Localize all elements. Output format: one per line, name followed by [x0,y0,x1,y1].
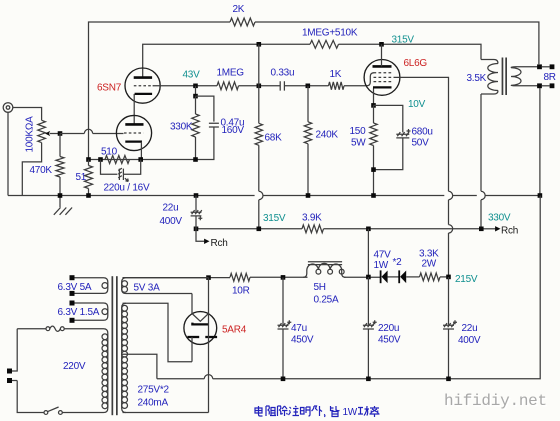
wire: 680u bottom to cathode resistor [374,138,403,170]
wire: switch to primary bottom [62,408,108,412]
capacitor C8 22u/400V screen filter [443,277,481,379]
wire: grid stopper into 6L6G grid hook [344,73,374,86]
capacitor C7 220u/450V second filter [363,277,401,379]
wire: branch to 0.47u bypass cap [196,96,214,122]
note: resistors 1W unless specified (Chinese) [255,406,380,418]
wire: plate feed from 315V rail tap [258,44,260,86]
potentiometer VR1 100K-A body [38,120,46,142]
svg-text:43V: 43V [183,70,201,81]
node: OPT primary feed [479,227,484,232]
svg-text:8R: 8R [544,72,556,83]
svg-text:3.9K: 3.9K [302,213,322,224]
V1b cathode [125,140,142,142]
svg-text:315V: 315V [263,213,286,224]
node: bias divider branch [193,94,198,99]
resistor 1MEG+510K (plate-grid feedback) [302,28,358,49]
wire: choke output feed [367,229,369,277]
svg-text:68K: 68K [265,133,283,144]
T1 primary 220V winding [63,333,108,409]
wire: 315V decoupled rail [196,228,302,230]
resistor R12 3.3K 2W screen dropper [419,249,440,281]
svg-text:51: 51 [76,172,87,183]
wire: D2 to 3.3K [406,276,419,278]
resistor R7 68K plate load [255,86,282,146]
wire: cathode rail (0.47u bottom to 51R top) [89,127,214,160]
zener D1 47V 1W [381,270,388,283]
svg-text:680u: 680u [412,127,433,138]
wire: V1a grid line to 43V node [153,85,217,87]
node: 215V screen supply [446,274,478,285]
svg-text:220V: 220V [63,361,86,372]
node: 330K bottom junction [193,157,198,162]
node: choke output tap [366,227,371,232]
node: 68K feed tap [257,227,262,232]
svg-text:47u: 47u [291,323,307,334]
wire: OPT secondary bottom to ground [539,88,541,196]
wire: OPT primary bottom to 330V rail with hop [481,94,485,229]
wire: D1 to D2 [387,276,399,278]
svg-text:6SN7: 6SN7 [97,83,122,94]
wire: plug neutral lead [12,381,44,413]
wire: screen to 215V supply with hops [394,77,453,277]
V1a cathode [135,93,153,95]
V2 beam plates (dashed) [374,81,394,83]
wire: fuse to primary top [64,329,108,333]
node: 47u ground [281,377,286,382]
svg-text:1MEG: 1MEG [217,68,245,79]
svg-text:470K: 470K [30,165,53,176]
pot wiper arrow [45,131,60,136]
power transformer T1 core [112,276,118,415]
input jack J1 [3,103,13,113]
wire: 3.3K to 215V node [440,276,449,278]
svg-text:450V: 450V [378,335,401,346]
fuse F1 [46,326,64,331]
svg-text:1W: 1W [374,260,389,271]
node: 47u/choke input [281,275,286,280]
wire: rectifier output rail [123,277,231,279]
svg-text:1K: 1K [330,69,342,80]
tube V1a 6SN7 upper triode envelope [125,68,160,103]
mains plug terminals [7,369,12,384]
svg-text:22u: 22u [462,323,478,334]
wire: V2 cathode lead [373,89,375,106]
wire: 10R to 47u node [250,276,308,278]
resistor R6 1K grid stopper [329,69,345,90]
svg-text:5H: 5H [314,282,326,293]
T1 winding 5V 3A [122,278,192,294]
resistor R9 150 5W cathode bias [350,105,378,195]
wire: 5V top lead to filament rail [126,277,209,279]
label: 10V cathode voltage [408,99,426,110]
zener D2 47V 1W [374,250,407,284]
label: 330V supply [488,213,511,224]
wire: main ground rail [8,195,540,197]
node: 22u ground [446,377,451,382]
arrow: 315V to right channel [196,216,228,249]
output transformer T2 primary winding 3.5K [467,60,499,95]
capacitor C5 22u/400V decoupling [160,196,203,228]
resistor R-FB 2K (global feedback) [230,4,255,26]
label: 315V plate voltage [392,35,415,46]
wire: choke to zeners [344,276,381,278]
svg-text:hifidiy.net: hifidiy.net [444,392,547,410]
wire: V1a cathode to V1b plate (cascode link) [133,94,135,125]
resistor R10 3.9K decoupling [302,213,324,233]
resistor R8 240K 6L6G grid leak [304,86,338,196]
wire: 43V node down to bias branch [195,86,197,96]
svg-text:50V: 50V [412,138,430,149]
switch S1 [44,407,62,414]
svg-text:6.3V 5A: 6.3V 5A [58,282,92,293]
svg-text:*2: *2 [393,257,403,268]
node: 5AR4 filament output [206,275,211,280]
V3 cathode [192,323,208,325]
svg-text:3.5K: 3.5K [467,73,487,84]
capacitor C4 680u/50V cathode bypass [396,127,432,149]
node: 150R ground [371,193,376,198]
T1 winding 6.3V 1.5A [58,301,108,323]
V1b plate [125,123,143,126]
node: 51R ground [86,193,91,198]
V2 screen grid (dashed) [374,76,394,78]
V2 cathode [373,86,392,88]
svg-text:510: 510 [101,147,118,158]
svg-text:0.25A: 0.25A [314,295,339,306]
node: 315V rail left end [194,227,199,232]
svg-text:5V 3A: 5V 3A [134,283,161,294]
node: V1 plate signal node [257,84,262,89]
node: secondary/PSU ground junction [538,193,543,198]
svg-text:47V: 47V [374,250,392,261]
svg-text:330K: 330K [170,122,193,133]
resistor R2 330K bias divider lower [170,96,199,159]
label: 315V supply [263,213,286,224]
capacitor C3 0.33u coupling [271,68,295,91]
node: 220u ground [366,377,371,382]
svg-text:240mA: 240mA [138,398,169,409]
capacitor C6 47u/450V first filter [278,277,314,378]
wire: cascode plate rail (V1a plate node) [143,44,310,77]
svg-text:10R: 10R [232,286,250,297]
resistor R3 510 cathode bias [101,147,130,164]
node: 240K ground [306,193,311,198]
wire: 68K bottom to 315V rail with hop over ground [259,145,263,229]
svg-text:6L6G: 6L6G [404,58,428,69]
V3 right anode [205,336,217,338]
wire: HV top to left anode [123,303,193,362]
svg-text:220u / 16V: 220u / 16V [104,183,150,194]
wire: plug live lead [12,329,17,371]
wire: coupling cap to grid stopper [284,85,328,87]
V1a plate [134,76,152,79]
wire: mains live to fuse [17,328,46,330]
svg-text:220u: 220u [378,323,399,334]
node: V2 cathode junction [371,103,376,108]
output transformer T2 secondary winding [511,67,540,86]
V2 plate [373,65,392,68]
svg-text:Rch: Rch [211,238,228,249]
wire: V1b cathode down to cathode rail [140,142,142,160]
node: 22u ground [194,193,199,198]
label: 6SN7 [97,83,122,94]
wire: feedback rail right segment to OPT secondary top [255,22,539,64]
T1 winding 6.3V 5A [58,275,108,296]
svg-text:215V: 215V [455,274,478,285]
svg-text:330V: 330V [488,213,511,224]
label: 43V grid bias [183,70,201,81]
ground symbol [54,196,72,215]
node: wiper junction [58,131,63,136]
V2 control grid (dashed) [374,72,394,74]
svg-text:275V*2: 275V*2 [138,384,170,395]
wire: HV center tap to ground rail [122,354,157,379]
svg-text:5W: 5W [351,138,366,149]
svg-text:150: 150 [350,126,367,137]
capacitor C2 220u/16V cathode bypass [104,168,150,193]
label: 100K ohm A pot value (rotated) [25,116,36,153]
svg-text:400V: 400V [160,216,183,227]
node: 6L6G plate junction [379,42,384,47]
svg-text:2W: 2W [422,259,437,270]
wire: 5V winding bottom to filament left [191,294,193,314]
wire: PSU ground rail with hop over anode lead [157,196,540,379]
wire: 315V plate rail to 6L6G plate and OPT primary top [339,44,482,59]
svg-text:400V: 400V [458,335,481,346]
resistor R11 10R [230,273,250,296]
tube V1b 6SN7 lower triode envelope [116,115,151,150]
svg-text:22u: 22u [163,203,179,214]
svg-text:315V: 315V [392,35,415,46]
svg-text:1W: 1W [343,407,358,418]
node: 43V grid node [193,84,198,89]
wire: 220u bypass loop right [123,160,140,175]
svg-text:160V: 160V [222,125,245,136]
resistor R1 470K grid leak [30,134,65,196]
V3 left anode [187,336,199,338]
wire: jack hot to volume pot top [13,108,42,121]
arrow: 330V to right channel [482,226,519,237]
watermark hifidiy.net [444,392,548,411]
wire: pot cold end to ground [22,143,41,196]
svg-text:0.33u: 0.33u [271,68,295,79]
wire: plate node to coupling cap [239,85,281,87]
wire: wiper to V1b grid with hop over feedback line [60,129,124,133]
node: 470K ground [58,193,63,198]
node: 6L6G grid node [306,84,311,89]
wire: feedback rail from OPT secondary to 51R top, left segment [89,22,231,160]
svg-text:Rch: Rch [501,226,518,237]
resistor R4 51 feedback shunt [76,160,93,196]
svg-text:1MEG+510K: 1MEG+510K [302,28,358,39]
node: 680u/150R bottom junction [371,167,376,172]
V1a grid (dashed) [134,85,153,87]
T1 HV winding 275V*2 240mA [122,303,170,412]
capacitor C1 0.47u/160V grid bypass [209,118,245,137]
wire: 220u bypass loop left [101,160,118,175]
node: V1b cathode junction [138,157,143,162]
wire: 330V rail [324,228,482,230]
speaker terminal squares 8R [537,64,556,88]
node: feedback injection at 51R top [86,157,91,162]
output transformer T2 core [502,58,507,96]
tube V3 5AR4 envelope [184,312,217,345]
svg-text:2K: 2K [233,4,245,15]
svg-text:6.3V 1.5A: 6.3V 1.5A [58,307,100,318]
svg-text:10V: 10V [408,99,426,110]
node: 315V plate rail at divider tap [257,42,262,47]
V1b grid (dashed) [124,132,143,134]
svg-text:5AR4: 5AR4 [222,325,247,336]
label: 6L6G [404,58,428,69]
node: 510/220u left junction [98,157,103,162]
choke L1 5H 0.25A [303,262,346,306]
resistor R5 1MEG divider upper [217,68,245,90]
V3 filament [192,314,209,322]
svg-text:450V: 450V [291,335,314,346]
node: 220u/choke output junction [366,275,371,280]
wire: V2 plate lead to 315V rail [381,44,383,66]
wire: cathode branch to 680u [374,105,403,132]
tube V2 6L6G envelope [364,60,400,96]
wire: jack sleeve to ground rail [7,112,9,195]
label: 5AR4 [222,325,247,336]
svg-text:100KΩA: 100KΩA [25,116,36,153]
wire: filament right to output rail / right anode to HV bottom [208,278,210,413]
svg-text:240K: 240K [316,130,339,141]
wire: left anode lead [191,337,193,362]
wire: HV bottom to right anode [123,412,209,414]
